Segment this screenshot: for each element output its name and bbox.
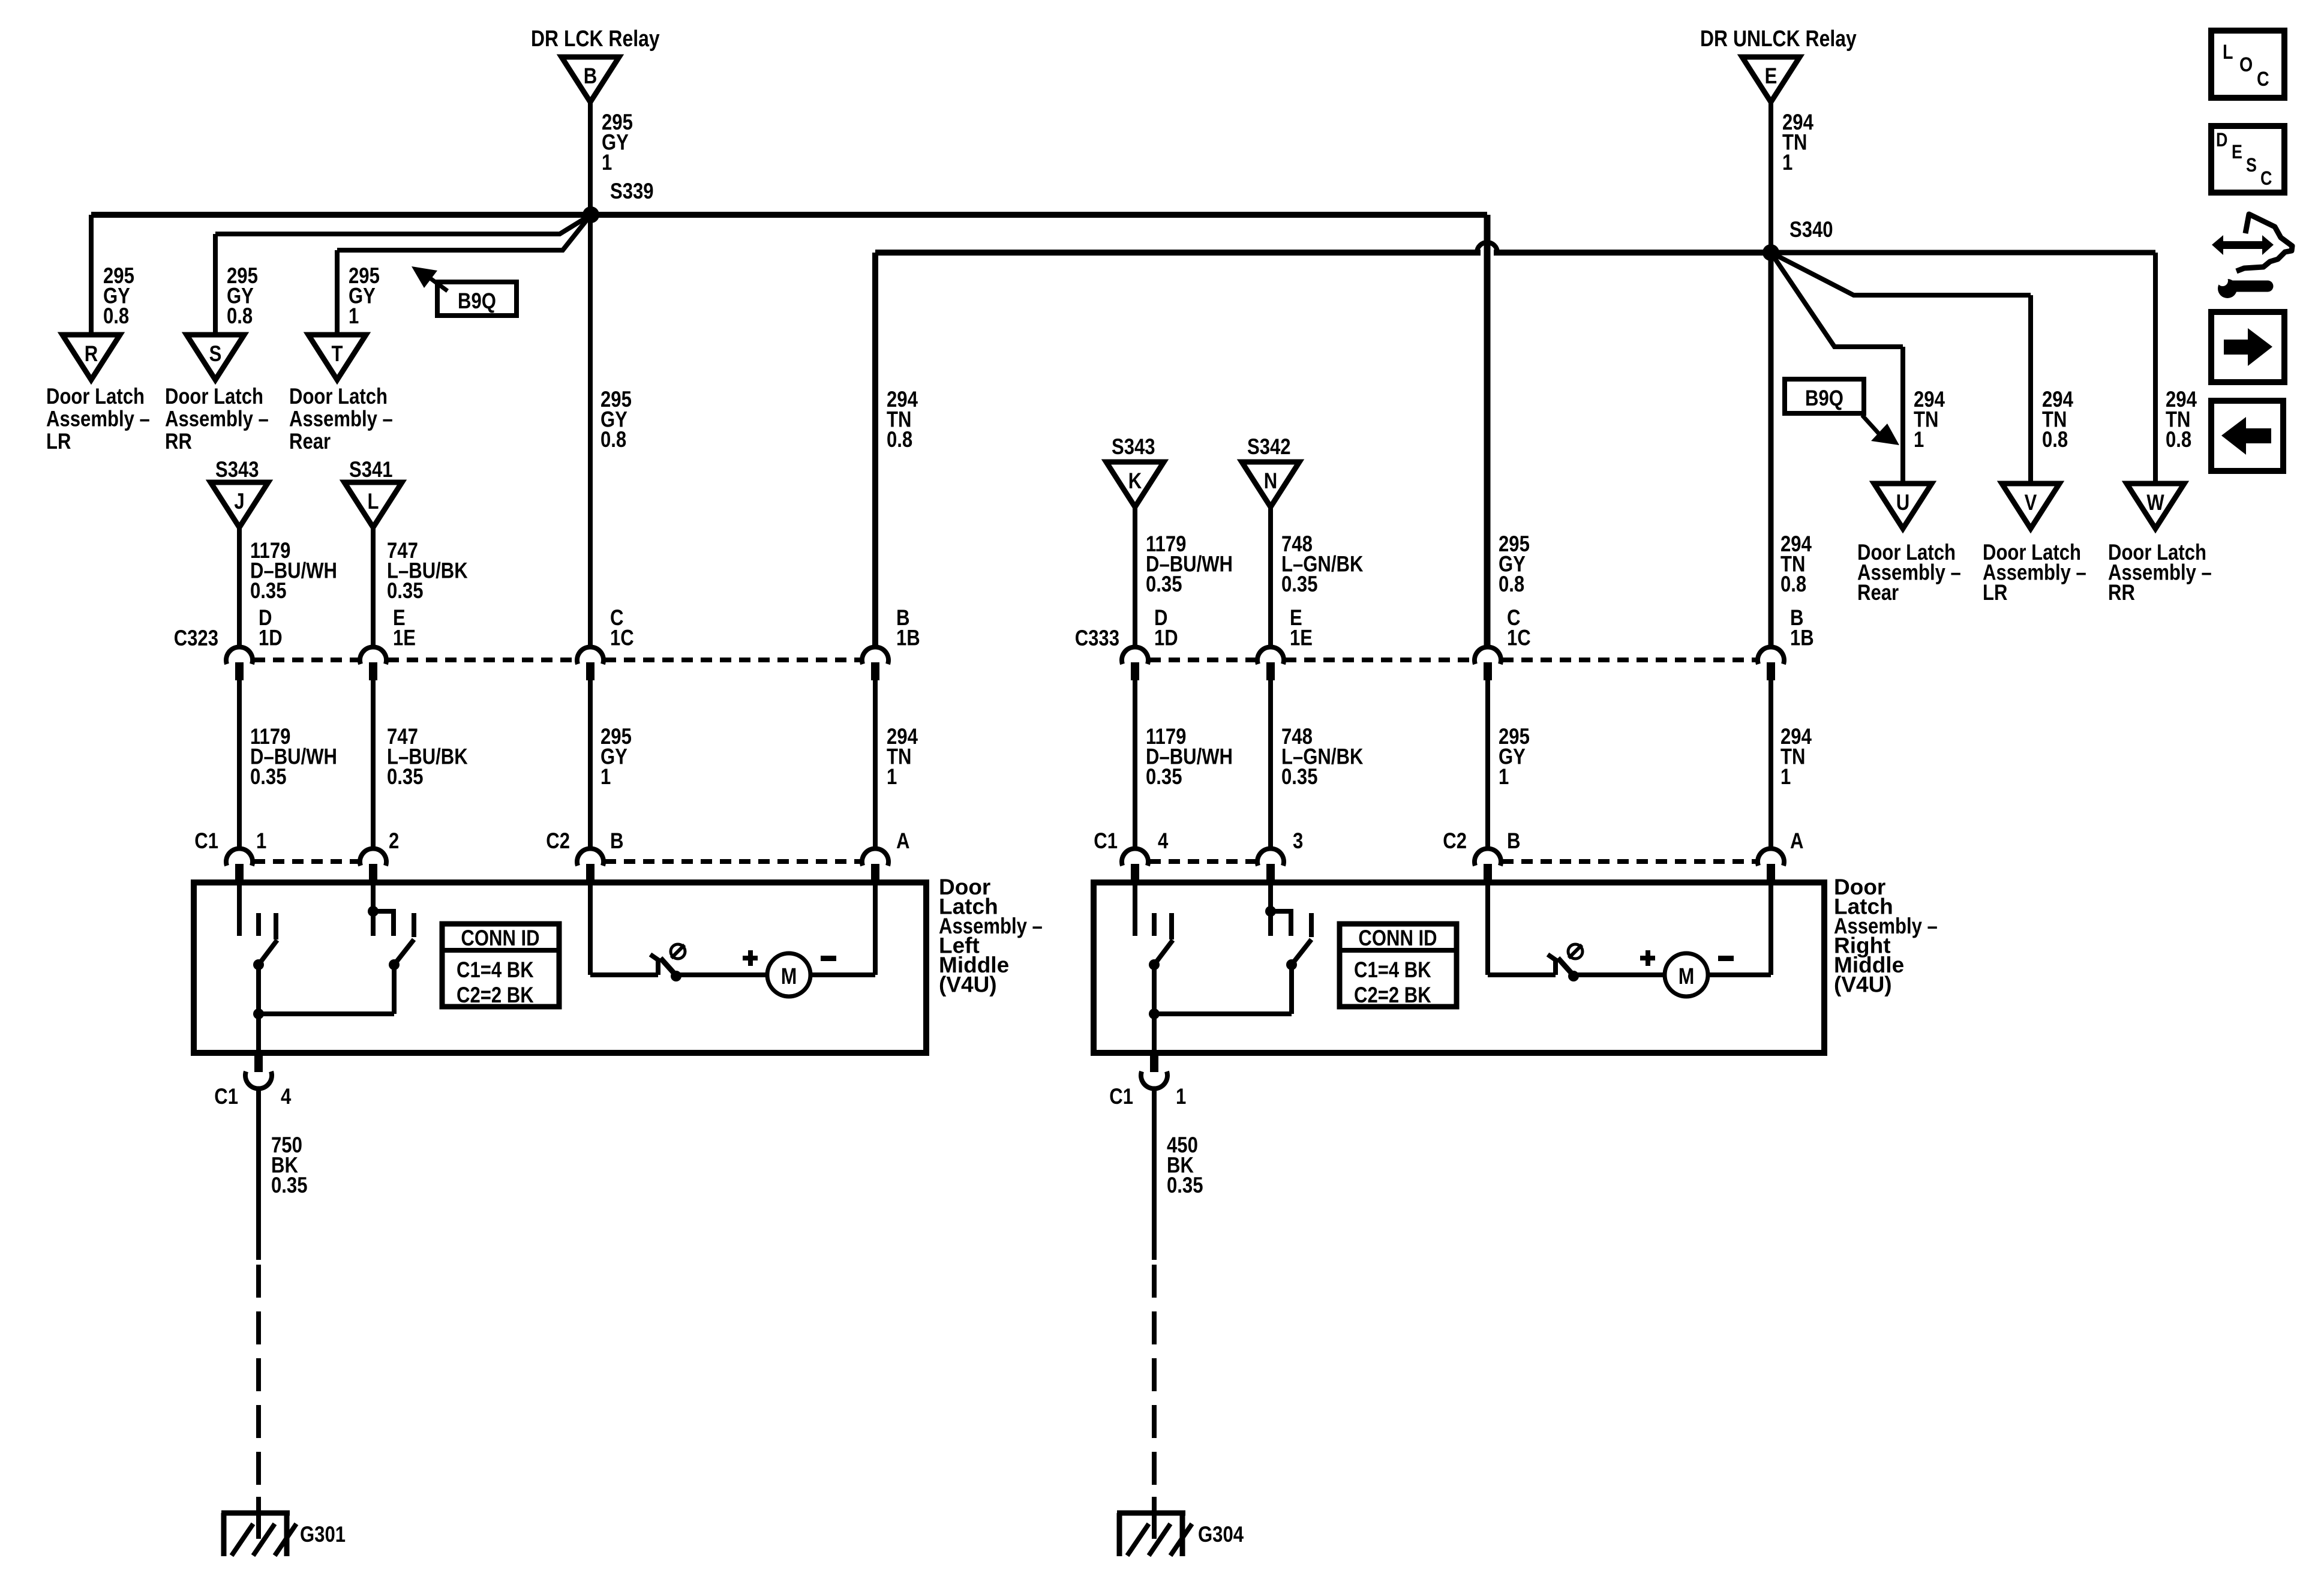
svg-text:B9Q: B9Q bbox=[458, 289, 496, 313]
svg-text:0.8: 0.8 bbox=[2166, 427, 2191, 452]
svg-text:RR: RR bbox=[2108, 580, 2135, 605]
svg-text:N: N bbox=[1264, 469, 1278, 493]
svg-text:A: A bbox=[896, 828, 910, 853]
svg-text:C2: C2 bbox=[1443, 828, 1467, 853]
svg-text:4: 4 bbox=[281, 1084, 292, 1109]
svg-text:Door Latch: Door Latch bbox=[289, 384, 388, 409]
svg-text:Rear: Rear bbox=[289, 429, 331, 454]
svg-text:S: S bbox=[2246, 154, 2257, 176]
svg-text:0.35: 0.35 bbox=[1281, 572, 1318, 596]
svg-text:C: C bbox=[2260, 167, 2272, 189]
svg-text:4: 4 bbox=[1158, 828, 1169, 853]
svg-text:Assembly –: Assembly – bbox=[289, 407, 393, 431]
svg-text:LR: LR bbox=[1983, 580, 2007, 605]
svg-text:C: C bbox=[2257, 68, 2269, 91]
svg-text:0.8: 0.8 bbox=[600, 427, 626, 452]
svg-text:S343: S343 bbox=[215, 457, 259, 482]
svg-text:K: K bbox=[1128, 469, 1142, 493]
svg-text:1: 1 bbox=[1782, 150, 1792, 175]
svg-text:U: U bbox=[1896, 490, 1910, 515]
svg-text:C1: C1 bbox=[1109, 1084, 1133, 1109]
svg-text:CONN ID: CONN ID bbox=[461, 926, 539, 950]
svg-text:Assembly –: Assembly – bbox=[165, 407, 269, 431]
svg-text:D: D bbox=[2216, 129, 2227, 151]
svg-text:B: B bbox=[1507, 828, 1521, 853]
svg-text:DR UNLCK Relay: DR UNLCK Relay bbox=[1700, 26, 1857, 52]
svg-text:(V4U): (V4U) bbox=[939, 972, 997, 997]
svg-text:0.8: 0.8 bbox=[887, 427, 912, 452]
svg-text:0.35: 0.35 bbox=[250, 578, 287, 603]
svg-text:Door Latch: Door Latch bbox=[165, 384, 263, 409]
svg-text:Rear: Rear bbox=[1857, 580, 1899, 605]
svg-text:L: L bbox=[2223, 41, 2233, 64]
svg-text:L: L bbox=[368, 489, 379, 514]
svg-text:C2=2 BK: C2=2 BK bbox=[1354, 983, 1431, 1007]
svg-text:M: M bbox=[781, 964, 797, 989]
svg-text:1E: 1E bbox=[1290, 625, 1313, 650]
svg-text:0.8: 0.8 bbox=[1780, 572, 1806, 596]
svg-text:J: J bbox=[234, 489, 244, 514]
svg-text:1: 1 bbox=[1499, 764, 1509, 789]
svg-text:0.8: 0.8 bbox=[1499, 572, 1524, 596]
svg-text:3: 3 bbox=[1293, 828, 1303, 853]
svg-text:0.35: 0.35 bbox=[250, 764, 287, 789]
svg-text:S: S bbox=[209, 341, 222, 366]
svg-text:0.8: 0.8 bbox=[103, 304, 129, 328]
svg-text:(V4U): (V4U) bbox=[1834, 972, 1892, 997]
svg-text:G304: G304 bbox=[1198, 1522, 1244, 1547]
svg-text:1: 1 bbox=[602, 150, 612, 175]
svg-text:0.35: 0.35 bbox=[1146, 764, 1182, 789]
svg-text:Assembly –: Assembly – bbox=[46, 407, 150, 431]
svg-text:O: O bbox=[2239, 53, 2253, 76]
svg-text:0.35: 0.35 bbox=[271, 1173, 308, 1197]
svg-text:0.8: 0.8 bbox=[2042, 427, 2068, 452]
svg-text:1B: 1B bbox=[896, 625, 920, 650]
svg-text:0.8: 0.8 bbox=[227, 304, 253, 328]
svg-text:S342: S342 bbox=[1247, 434, 1291, 459]
svg-text:0.35: 0.35 bbox=[1281, 764, 1318, 789]
svg-text:1: 1 bbox=[600, 764, 611, 789]
svg-text:DR LCK Relay: DR LCK Relay bbox=[531, 26, 660, 52]
svg-text:S340: S340 bbox=[1789, 217, 1833, 242]
svg-text:C333: C333 bbox=[1075, 626, 1119, 650]
svg-text:1: 1 bbox=[349, 304, 359, 328]
svg-text:1C: 1C bbox=[1507, 625, 1531, 650]
svg-text:1B: 1B bbox=[1790, 625, 1814, 650]
svg-text:1: 1 bbox=[1914, 427, 1924, 452]
svg-text:1: 1 bbox=[887, 764, 897, 789]
svg-text:C1: C1 bbox=[1094, 828, 1118, 853]
svg-text:RR: RR bbox=[165, 429, 192, 454]
svg-text:S341: S341 bbox=[349, 457, 393, 482]
svg-text:S343: S343 bbox=[1112, 434, 1155, 459]
svg-text:C1: C1 bbox=[194, 828, 218, 853]
svg-text:C2: C2 bbox=[546, 828, 570, 853]
svg-text:2: 2 bbox=[389, 828, 399, 853]
svg-text:1E: 1E bbox=[393, 625, 416, 650]
svg-text:0.35: 0.35 bbox=[1167, 1173, 1203, 1197]
svg-text:1: 1 bbox=[1780, 764, 1791, 789]
svg-text:E: E bbox=[1765, 64, 1777, 88]
svg-text:A: A bbox=[1790, 828, 1804, 853]
svg-text:1D: 1D bbox=[1154, 625, 1178, 650]
svg-text:1: 1 bbox=[256, 828, 266, 853]
svg-text:CONN ID: CONN ID bbox=[1358, 926, 1437, 950]
svg-text:T: T bbox=[332, 341, 343, 366]
svg-text:G301: G301 bbox=[300, 1522, 346, 1547]
svg-text:B: B bbox=[584, 64, 597, 88]
svg-text:1D: 1D bbox=[259, 625, 283, 650]
svg-text:0.35: 0.35 bbox=[387, 578, 424, 603]
svg-text:M: M bbox=[1679, 964, 1695, 989]
svg-text:0.35: 0.35 bbox=[387, 764, 424, 789]
svg-text:C323: C323 bbox=[174, 626, 218, 650]
svg-text:C2=2 BK: C2=2 BK bbox=[457, 983, 534, 1007]
svg-text:V: V bbox=[2025, 490, 2037, 515]
svg-text:LR: LR bbox=[46, 429, 71, 454]
svg-text:Door Latch: Door Latch bbox=[46, 384, 145, 409]
svg-text:S339: S339 bbox=[610, 179, 654, 203]
svg-text:W: W bbox=[2146, 490, 2164, 515]
svg-text:B: B bbox=[610, 828, 624, 853]
svg-text:E: E bbox=[2232, 141, 2242, 163]
svg-text:1: 1 bbox=[1176, 1084, 1186, 1109]
svg-text:1C: 1C bbox=[610, 625, 634, 650]
svg-text:C1=4 BK: C1=4 BK bbox=[457, 957, 534, 982]
svg-text:C1: C1 bbox=[214, 1084, 238, 1109]
svg-text:B9Q: B9Q bbox=[1805, 386, 1843, 410]
svg-text:0.35: 0.35 bbox=[1146, 572, 1182, 596]
svg-text:C1=4 BK: C1=4 BK bbox=[1354, 957, 1431, 982]
svg-text:R: R bbox=[85, 341, 98, 366]
